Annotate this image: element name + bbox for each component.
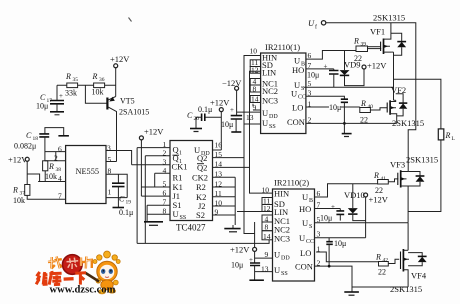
svg-text:U: U <box>262 108 268 118</box>
svg-text:+: + <box>230 106 234 114</box>
svg-text:+: + <box>324 63 328 71</box>
svg-text:2SK1315: 2SK1315 <box>373 13 405 23</box>
svg-text:10μ: 10μ <box>36 102 48 111</box>
svg-text:R1: R1 <box>173 172 183 182</box>
svg-text:2SK1315: 2SK1315 <box>390 284 422 294</box>
svg-text:DD: DD <box>281 256 290 262</box>
svg-text:CON: CON <box>287 117 305 127</box>
svg-text:NC3: NC3 <box>262 96 278 106</box>
svg-text:L: L <box>452 136 456 142</box>
svg-text:NE555: NE555 <box>76 167 100 176</box>
svg-text:10μ: 10μ <box>231 261 243 270</box>
svg-text:5: 5 <box>163 180 167 189</box>
svg-text:VD10: VD10 <box>344 190 365 200</box>
svg-text:40: 40 <box>368 104 374 110</box>
svg-text:7: 7 <box>163 198 167 207</box>
svg-text:+12V: +12V <box>144 127 164 137</box>
svg-text:+: + <box>249 256 253 264</box>
svg-text:2: 2 <box>54 154 58 163</box>
svg-text:NC2: NC2 <box>262 86 278 96</box>
svg-text:4: 4 <box>58 174 62 183</box>
svg-text:42: 42 <box>383 258 389 264</box>
svg-text:HO: HO <box>292 65 304 75</box>
svg-text:39: 39 <box>361 42 367 48</box>
svg-text:TC4027: TC4027 <box>176 223 206 233</box>
svg-text:R: R <box>353 37 359 46</box>
svg-text:CC: CC <box>298 95 306 101</box>
svg-text:LO: LO <box>300 248 311 258</box>
svg-text:6: 6 <box>163 189 167 198</box>
svg-text:7: 7 <box>58 192 62 201</box>
svg-text:U: U <box>294 56 300 66</box>
svg-text:U: U <box>262 118 268 128</box>
svg-text:HO: HO <box>299 204 311 214</box>
svg-text:U: U <box>299 233 305 243</box>
svg-text:LIN: LIN <box>262 68 276 78</box>
svg-text:LO: LO <box>292 103 303 113</box>
svg-text:R: R <box>65 72 71 81</box>
svg-text:22: 22 <box>378 268 386 277</box>
svg-text:+12V: +12V <box>230 245 250 255</box>
svg-text:10: 10 <box>262 186 270 195</box>
svg-text:+: + <box>59 92 63 100</box>
svg-text:VF1: VF1 <box>370 27 385 37</box>
svg-text:41: 41 <box>381 176 387 182</box>
svg-text:VF3: VF3 <box>390 160 405 170</box>
svg-text:HIN: HIN <box>274 189 289 199</box>
svg-text:10μ: 10μ <box>320 214 332 223</box>
svg-text:R: R <box>12 186 18 195</box>
svg-text:C: C <box>119 195 125 204</box>
svg-text:www.dzsc.com: www.dzsc.com <box>50 285 116 296</box>
svg-text:+: + <box>331 203 335 211</box>
svg-text:R2: R2 <box>196 182 206 192</box>
svg-text:3: 3 <box>107 144 111 153</box>
svg-text:R: R <box>445 131 451 140</box>
svg-text:C: C <box>187 111 193 120</box>
svg-text:U: U <box>173 209 179 219</box>
svg-text:10k: 10k <box>92 88 104 97</box>
svg-text:2SA1015: 2SA1015 <box>119 108 149 117</box>
svg-text:10: 10 <box>250 47 258 56</box>
svg-text:8: 8 <box>265 223 269 232</box>
svg-text:S: S <box>309 224 312 230</box>
svg-text:2: 2 <box>163 149 167 158</box>
svg-text:R: R <box>92 72 98 81</box>
svg-text:f: f <box>315 24 317 31</box>
svg-text:1: 1 <box>179 151 182 157</box>
svg-text:U: U <box>274 265 280 275</box>
svg-text:1: 1 <box>108 188 112 197</box>
svg-text:2SK1315: 2SK1315 <box>392 118 424 128</box>
svg-text:4: 4 <box>163 166 167 175</box>
svg-text:VT5: VT5 <box>120 97 135 106</box>
svg-text:0.082μ: 0.082μ <box>14 142 36 151</box>
svg-text:U: U <box>302 192 308 202</box>
svg-text:10μ: 10μ <box>307 71 319 80</box>
svg-text:10k: 10k <box>45 172 57 181</box>
svg-text:Q2: Q2 <box>197 153 207 163</box>
svg-text:CON: CON <box>295 262 313 272</box>
svg-text:13: 13 <box>261 265 269 274</box>
svg-text:NC3: NC3 <box>274 234 290 244</box>
svg-text:33k: 33k <box>65 89 77 98</box>
svg-text:+12V: +12V <box>367 61 387 71</box>
svg-text:SS: SS <box>281 271 288 277</box>
svg-text:−12V: −12V <box>222 78 242 88</box>
svg-text:10μ: 10μ <box>329 103 341 112</box>
svg-text:IR2110(1): IR2110(1) <box>265 42 300 52</box>
svg-text:20: 20 <box>194 116 200 122</box>
svg-text:DD: DD <box>269 114 278 120</box>
svg-text:IR2110(2): IR2110(2) <box>274 178 309 188</box>
svg-text:R: R <box>360 99 366 108</box>
svg-text:5: 5 <box>308 79 312 88</box>
svg-text:36: 36 <box>99 77 105 83</box>
svg-text:R: R <box>48 162 54 171</box>
svg-text:+12V: +12V <box>110 54 130 64</box>
svg-text:10μ: 10μ <box>221 120 233 129</box>
svg-text:U: U <box>274 250 280 260</box>
svg-text:SS: SS <box>269 124 276 130</box>
svg-text:2SK1315: 2SK1315 <box>406 155 438 165</box>
svg-text:19: 19 <box>126 200 132 206</box>
svg-text:6: 6 <box>58 145 62 154</box>
svg-text:S2: S2 <box>196 210 205 220</box>
svg-text:+12V: +12V <box>369 195 389 205</box>
svg-text:R: R <box>375 253 381 262</box>
svg-text:U: U <box>291 89 297 99</box>
svg-text:10k: 10k <box>13 196 25 205</box>
svg-text:0.1μ: 0.1μ <box>198 105 212 114</box>
svg-text:C: C <box>26 131 32 140</box>
svg-text:VF4: VF4 <box>411 271 427 281</box>
svg-text:0.1μ: 0.1μ <box>119 208 133 217</box>
svg-text:VD9: VD9 <box>344 60 361 70</box>
svg-text:U: U <box>308 18 315 28</box>
svg-text:U: U <box>302 218 308 228</box>
svg-text:5: 5 <box>108 155 112 164</box>
svg-text:3: 3 <box>317 230 321 239</box>
svg-text:35: 35 <box>73 77 79 83</box>
svg-text:CC: CC <box>306 239 314 245</box>
svg-text:8: 8 <box>163 207 167 216</box>
svg-text:+12V: +12V <box>210 98 230 108</box>
svg-text:SS: SS <box>180 215 187 221</box>
svg-text:CK2: CK2 <box>192 172 208 182</box>
svg-text:CK1: CK1 <box>172 162 188 172</box>
svg-text:10μ: 10μ <box>334 239 346 248</box>
svg-text:R: R <box>373 171 379 180</box>
